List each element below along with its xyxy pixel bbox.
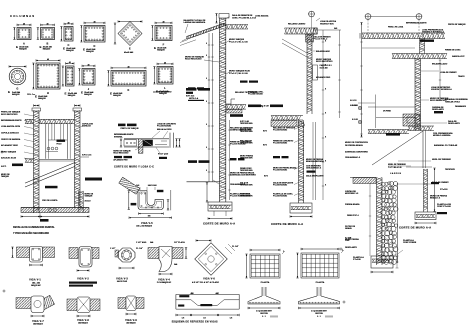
svg-text:N.P.T.: N.P.T. [1, 166, 7, 168]
svg-text:E: E [35, 94, 37, 98]
svg-text:F'C=1.5 T ML-2: F'C=1.5 T ML-2 [314, 39, 328, 41]
svg-text:E#2@20: E#2@20 [113, 95, 121, 97]
svg-text:VIGA V-2: VIGA V-2 [77, 278, 89, 281]
svg-text:APLANADO FINO: APLANADO FINO [316, 76, 331, 79]
svg-text:TEPETATE 90%: TEPETATE 90% [240, 122, 253, 125]
svg-text:LOSA DE CIMENT.: LOSA DE CIMENT. [440, 71, 457, 74]
svg-text:ROJO RECOCIDO: ROJO RECOCIDO [1, 114, 18, 116]
svg-text:FIRME DE CONC: FIRME DE CONC [445, 50, 461, 52]
svg-text:VIGUETA Y BOVEDILLA: VIGUETA Y BOVEDILLA [431, 88, 452, 91]
svg-text:E#2@20: E#2@20 [86, 51, 94, 53]
svg-text:PL 1/4": PL 1/4" [232, 245, 239, 248]
svg-text:N.P.T.: N.P.T. [263, 145, 268, 147]
svg-text:8: 8 [206, 43, 207, 45]
svg-text:N. 0.00: N. 0.00 [352, 105, 358, 107]
svg-text:F'C=100 KG/CM2: F'C=100 KG/CM2 [273, 185, 287, 187]
svg-text:BARANDAL FO. TUBULAR: BARANDAL FO. TUBULAR [434, 144, 458, 147]
svg-text:DESPLANTE: DESPLANTE [448, 122, 460, 125]
svg-text:40: 40 [46, 22, 48, 25]
svg-text:F'C=150: F'C=150 [440, 189, 447, 191]
svg-text:E#2@20: E#2@20 [19, 48, 27, 50]
svg-text:C O L U M N A S: C O L U M N A S [10, 14, 34, 18]
svg-text:FOCO: FOCO [57, 144, 63, 146]
svg-text:CONC F'C=100: CONC F'C=100 [437, 206, 451, 208]
svg-text:VIGA V-6: VIGA V-6 [203, 278, 215, 281]
svg-text:TEPETATE 90%: TEPETATE 90% [240, 195, 253, 198]
svg-text:APLANADO YESO: APLANADO YESO [1, 144, 18, 147]
svg-text:ESQUEMA DE REFUERZO EN VIGAS: ESQUEMA DE REFUERZO EN VIGAS [172, 320, 218, 323]
svg-text:E: E [110, 91, 112, 95]
svg-text:E: E [81, 90, 83, 94]
svg-text:L/5: L/5 [230, 318, 233, 320]
svg-text:F'C=100 KG/CM2: F'C=100 KG/CM2 [273, 196, 287, 198]
svg-text:D: D [93, 44, 95, 48]
svg-text:CORTE DE MURO A-A: CORTE DE MURO A-A [399, 226, 431, 230]
svg-text:TEPETATE 90%: TEPETATE 90% [240, 142, 253, 145]
svg-text:LOSA MACIZA: LOSA MACIZA [255, 15, 269, 18]
svg-text:DESPLANTE: DESPLANTE [432, 108, 444, 111]
svg-text:4 Ø 1/2" OR. A 1/2" A C/LADO: 4 Ø 1/2" OR. A 1/2" A C/LADO [192, 281, 219, 284]
svg-text:40: 40 [87, 63, 89, 66]
svg-text:SECCION: SECCION [260, 313, 268, 315]
svg-text:ASENTADA C/MORTERO: ASENTADA C/MORTERO [345, 151, 368, 154]
svg-text:TINACO: TINACO [458, 75, 465, 78]
svg-text:2% PEND: 2% PEND [383, 111, 392, 113]
svg-text:F'C=100 KG/CM2: F'C=100 KG/CM2 [273, 130, 287, 132]
svg-text:CEM-ARENA 1:5: CEM-ARENA 1:5 [306, 167, 322, 170]
svg-text:NIVEL DE TERRENO: NIVEL DE TERRENO [432, 159, 451, 161]
svg-text:VIGUETA Y BOV.: VIGUETA Y BOV. [320, 23, 334, 26]
svg-text:F: F [163, 43, 165, 47]
svg-text:TUBULAR 2 PULG: TUBULAR 2 PULG [445, 101, 461, 104]
svg-text:B: B [46, 42, 48, 46]
svg-text:N. 0.00: N. 0.00 [352, 119, 358, 121]
svg-text:N.P.T. 0.15: N.P.T. 0.15 [82, 155, 92, 157]
svg-text:N. 0.15: N. 0.15 [350, 100, 357, 102]
svg-text:40: 40 [47, 58, 49, 61]
svg-text:CEM-ARENA 1:5: CEM-ARENA 1:5 [345, 156, 361, 159]
svg-text:F'C=100 KG/CM2: F'C=100 KG/CM2 [248, 94, 263, 96]
svg-text:TEPETATE 90%: TEPETATE 90% [240, 169, 253, 172]
svg-text:PASAMANOS: PASAMANOS [455, 105, 467, 108]
svg-text:F'C=100: F'C=100 [353, 259, 362, 261]
svg-text:VIGA V-5: VIGA V-5 [141, 222, 153, 225]
svg-text:H: H [47, 91, 49, 95]
svg-text:C: C [67, 43, 69, 47]
svg-text:IMPERMEABILIZANTE: IMPERMEABILIZANTE [1, 119, 22, 122]
svg-text:TEPETATE 90%: TEPETATE 90% [240, 130, 253, 133]
svg-text:VIGA V-1: VIGA V-1 [29, 279, 41, 282]
svg-text:8: 8 [206, 170, 207, 172]
svg-text:E#2@20: E#2@20 [84, 94, 92, 96]
svg-text:MODELO A MEDIDA: MODELO A MEDIDA [433, 134, 451, 137]
svg-text:E: E [154, 46, 156, 50]
svg-text:E: E [16, 45, 18, 49]
svg-text:INTEGRAL: INTEGRAL [114, 135, 123, 138]
svg-text:E: E [83, 47, 85, 51]
svg-text:40: 40 [69, 61, 71, 64]
svg-text:ASENTADA CON MORTERO: ASENTADA CON MORTERO [230, 174, 256, 177]
svg-text:DESPLANTE: DESPLANTE [345, 246, 357, 249]
svg-text:8: 8 [206, 55, 207, 57]
svg-text:40: 40 [67, 21, 69, 24]
svg-text:8: 8 [206, 124, 207, 126]
svg-text:ROJO RECOCIDO: ROJO RECOCIDO [113, 153, 129, 155]
svg-text:G: G [16, 87, 18, 91]
svg-text:L: L [164, 86, 166, 90]
svg-text:TEPETATE 90%: TEPETATE 90% [240, 157, 253, 160]
svg-text:E#2@20: E#2@20 [68, 95, 76, 97]
svg-text:E: E [40, 45, 42, 49]
svg-text:CERCO DE MADERA: CERCO DE MADERA [1, 138, 21, 141]
svg-text:E: E [129, 47, 131, 51]
svg-text:K: K [127, 88, 129, 92]
svg-text:VIGUETA Y BOVEDILLA: VIGUETA Y BOVEDILLA [422, 31, 444, 34]
svg-text:N.P.T.: N.P.T. [263, 131, 268, 133]
svg-text:E#2@20: E#2@20 [38, 98, 46, 100]
svg-text:2#4 + 2#4 E#2@15: 2#4 + 2#4 E#2@15 [136, 225, 152, 228]
svg-text:IMPERMEABILIZANTE: IMPERMEABILIZANTE [406, 22, 427, 25]
svg-text:RELLENO LIGERO: RELLENO LIGERO [288, 24, 306, 26]
svg-text:E#2@20: E#2@20 [157, 49, 165, 51]
svg-text:VIGA V-3: VIGA V-3 [116, 278, 128, 281]
svg-text:CUPULA ACRILICO: CUPULA ACRILICO [1, 132, 19, 135]
svg-text:PISO DE LOSETA: PISO DE LOSETA [42, 199, 58, 202]
svg-text:MURO DE CONTENCION: MURO DE CONTENCION [345, 142, 368, 144]
svg-text:N.P.T.: N.P.T. [264, 176, 269, 178]
svg-text:AZULEJO 20x20: AZULEJO 20x20 [1, 157, 16, 160]
svg-text:DETALLE DE ILUMINACION ZENITAL: DETALLE DE ILUMINACION ZENITAL [13, 226, 55, 229]
svg-text:TEPETATE: TEPETATE [445, 168, 456, 171]
svg-text:ZOCLO: ZOCLO [85, 201, 92, 203]
svg-text:MORTERO 1:5: MORTERO 1:5 [345, 193, 359, 195]
svg-text:PRETIL DE TABIQUE: PRETIL DE TABIQUE [121, 127, 140, 130]
svg-text:E#2@20: E#2@20 [43, 48, 51, 50]
svg-text:J A R D I N: J A R D I N [390, 172, 401, 175]
svg-text:F'C=1.5 T, ML 2-3 LB: F'C=1.5 T, ML 2-3 LB [229, 73, 248, 75]
svg-text:CORTE DE MURO A-A: CORTE DE MURO A-A [203, 222, 235, 226]
svg-text:BRAZA ASENTADA: BRAZA ASENTADA [306, 160, 324, 163]
svg-text:40: 40 [127, 65, 129, 68]
svg-text:F'C=100 KG/CM2: F'C=100 KG/CM2 [273, 143, 287, 145]
svg-text:2 - 1: 2 - 1 [262, 316, 266, 318]
svg-text:PLANTA: PLANTA [316, 281, 325, 284]
svg-text:E#2@20: E#2@20 [12, 94, 20, 96]
svg-text:PL 1/4": PL 1/4" [136, 247, 143, 250]
svg-text:CORTE DE MURO A-A: CORTE DE MURO A-A [271, 222, 303, 226]
svg-text:VIGA V-4: VIGA V-4 [158, 279, 170, 282]
svg-text:GARGOLA PVC: GARGOLA PVC [452, 55, 465, 58]
svg-text:40: 40 [93, 20, 95, 23]
svg-text:LOSA MACIZA 10CM: LOSA MACIZA 10CM [1, 125, 20, 128]
svg-text:LA DIM. DE ACERO: LA DIM. DE ACERO [153, 91, 172, 94]
svg-text:1 1/2" ANG: 1 1/2" ANG [136, 241, 147, 244]
svg-text:VIGA V-8: VIGA V-8 [77, 319, 89, 322]
svg-text:GRAVA: GRAVA [345, 227, 352, 230]
svg-text:E: E [63, 46, 65, 50]
svg-text:2#4 1/2 AD: 2#4 1/2 AD [148, 184, 158, 187]
svg-text:ACRILICO: ACRILICO [82, 125, 91, 128]
svg-text:105: 105 [148, 216, 151, 218]
svg-text:APLANADO FINO: APLANADO FINO [113, 158, 128, 161]
svg-text:PLANTA: PLANTA [261, 281, 270, 284]
svg-text:VIGA V-9: VIGA V-9 [125, 319, 137, 322]
svg-text:MALLA 6x6 10/10: MALLA 6x6 10/10 [157, 128, 171, 131]
svg-text:L/2: L/2 [203, 318, 206, 320]
svg-text:Y PISO EN BAÑO SECUNDARIO: Y PISO EN BAÑO SECUNDARIO [13, 232, 49, 235]
svg-text:40: 40 [164, 61, 166, 64]
svg-text:ROJO RECOCIDO: ROJO RECOCIDO [185, 59, 202, 61]
svg-text:DE PIEDRA BRAZA: DE PIEDRA BRAZA [345, 144, 363, 147]
svg-text:PRETIL DE TABIQUE: PRETIL DE TABIQUE [448, 23, 466, 26]
svg-text:45x45 4#6: 45x45 4#6 [124, 51, 133, 54]
svg-text:4#4 + 2#4: 4#4 + 2#4 [32, 282, 40, 285]
svg-text:SECCION: SECCION [315, 313, 323, 315]
svg-text:PIEDRA BRAZA: PIEDRA BRAZA [345, 203, 360, 206]
svg-text:L/5: L/5 [182, 318, 185, 320]
svg-text:ROJO RECOCIDO: ROJO RECOCIDO [316, 61, 333, 63]
svg-text:DREN PVC 4: DREN PVC 4 [347, 214, 360, 217]
svg-text:CONC POBRE: CONC POBRE [403, 242, 417, 244]
svg-text:PEND. 2% LOSA: PEND. 2% LOSA [388, 26, 404, 29]
svg-text:1/2" PLACA: 1/2" PLACA [174, 241, 185, 244]
svg-text:VIGA V-7: VIGA V-7 [32, 320, 44, 323]
svg-text:W 1/2" @ 20: W 1/2" @ 20 [158, 154, 168, 156]
svg-text:N.P.T. 0.15: N.P.T. 0.15 [186, 96, 194, 98]
svg-text:LAMINA GALVANIZADA: LAMINA GALVANIZADA [184, 21, 206, 24]
svg-text:8: 8 [206, 147, 207, 149]
svg-text:E: E [8, 90, 10, 94]
svg-text:CONC. F'C=150 ML 2-3 LB: CONC. F'C=150 ML 2-3 LB [232, 17, 257, 19]
svg-text:40: 40 [162, 20, 164, 23]
svg-text:F'C=1.5 T, ML 2-3 LB: F'C=1.5 T, ML 2-3 LB [229, 41, 248, 43]
svg-text:I: I [69, 88, 70, 92]
svg-text:A: A [23, 42, 25, 46]
svg-text:TEPETATE 90%: TEPETATE 90% [240, 184, 253, 187]
svg-text:140: 140 [136, 184, 139, 187]
svg-text:40: 40 [23, 22, 25, 25]
svg-text:15x15 4#3: 15x15 4#3 [320, 67, 328, 70]
svg-text:TABIQUE: TABIQUE [85, 195, 94, 198]
svg-text:N. TAB: N. TAB [345, 237, 352, 240]
svg-text:CORTE DE MURO Y LOSA C-C: CORTE DE MURO Y LOSA C-C [114, 165, 154, 168]
svg-text:E: E [65, 91, 67, 95]
svg-text:DALA DESPLANTE: DALA DESPLANTE [306, 175, 324, 178]
svg-text:8: 8 [206, 78, 207, 80]
svg-text:1 1/2": 1 1/2" [110, 248, 115, 250]
svg-text:E#2@20: E#2@20 [66, 50, 74, 52]
svg-text:BRAZA 1:5: BRAZA 1:5 [430, 197, 441, 200]
svg-text:2 - 1: 2 - 1 [317, 316, 321, 318]
svg-text:TABIQUE: TABIQUE [1, 175, 10, 178]
svg-text:8: 8 [206, 101, 207, 103]
svg-text:ENLADRILLADO: ENLADRILLADO [316, 50, 331, 53]
svg-text:F'C=100 KG/CM2: F'C=100 KG/CM2 [273, 170, 287, 172]
svg-text:F'C=150 KG/CM2: F'C=150 KG/CM2 [157, 126, 171, 128]
